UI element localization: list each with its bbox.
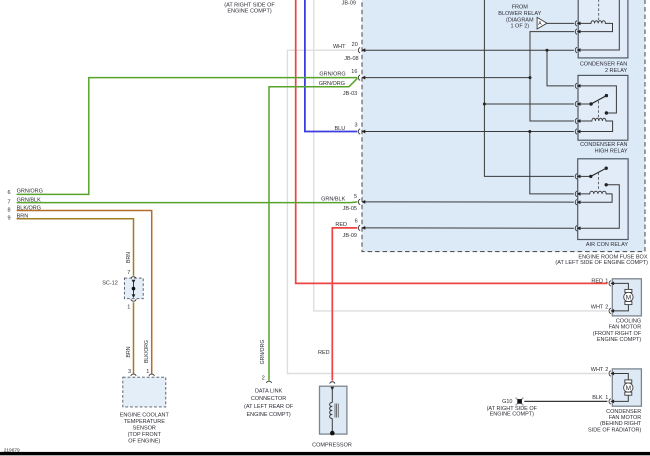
cooling fan motor box [612, 279, 641, 316]
svg-text:SENSOR: SENSOR [133, 425, 156, 431]
svg-text:CONDENSER: CONDENSER [606, 409, 641, 415]
svg-text:ENGINE COMPT): ENGINE COMPT) [246, 412, 290, 418]
junction node on BLU-3 wire [528, 130, 531, 133]
compressor connector arrow [330, 387, 334, 391]
svg-text:GRN/ORG: GRN/ORG [17, 189, 43, 195]
wire WHT from fuse box pin 20 to condenser fan motor [287, 50, 607, 373]
junction node on vertical wire [483, 103, 486, 106]
splice SC-12 internal wire [133, 283, 135, 296]
cooling fan motor internal wiring [614, 283, 629, 289]
svg-text:FAN MOTOR: FAN MOTOR [609, 415, 642, 421]
svg-text:FAN MOTOR: FAN MOTOR [609, 325, 642, 331]
fuse box internal branch down to K3 pin 2 [530, 132, 574, 194]
svg-text:GRN/BLK: GRN/BLK [17, 197, 41, 203]
svg-text:OF ENGINE): OF ENGINE) [128, 438, 160, 444]
svg-text:HIGH RELAY: HIGH RELAY [595, 148, 628, 154]
svg-text:7: 7 [7, 199, 10, 205]
svg-text:JB-08: JB-08 [344, 56, 358, 62]
relay K2 pin 1 connector [575, 83, 577, 88]
fuse box internal branch to K2 pin 2 [484, 103, 574, 105]
relay K3 lower contact wire to pin 4 [580, 185, 619, 229]
wire RED from top edge to cooling fan motor pin 1 [296, 0, 608, 283]
svg-text:GRN/ORG: GRN/ORG [319, 71, 345, 77]
svg-text:FROM: FROM [512, 5, 529, 11]
relay K1 pin B connector [575, 29, 577, 34]
compressor internal wire lower [331, 419, 333, 434]
fuse box edge connector pin 6 [358, 225, 360, 230]
cooling fan motor M symbol [625, 289, 632, 292]
relay K1 armature dashed link [598, 0, 600, 21]
svg-text:(AT RIGHT SIDE OF: (AT RIGHT SIDE OF [224, 2, 275, 8]
svg-text:3: 3 [355, 123, 358, 129]
fuse box internal wire WHT-20 to K1 pin C [365, 49, 574, 51]
svg-text:ENGINE COMPT): ENGINE COMPT) [490, 411, 534, 417]
relay K1 pin A connector [575, 21, 577, 26]
fuse box edge connector pin 16 [358, 75, 360, 80]
svg-text:BLOWER RELAY: BLOWER RELAY [498, 11, 541, 17]
svg-text:BRN: BRN [126, 252, 132, 263]
fuse box internal branch to K2 pin 1 [547, 50, 574, 86]
bottom border bar [0, 452, 650, 455]
svg-text:CONDENSER FAN: CONDENSER FAN [580, 61, 627, 67]
svg-text:(AT LEFT REAR OF: (AT LEFT REAR OF [244, 404, 294, 410]
svg-text:1: 1 [127, 304, 130, 310]
relay K2 lower contact [605, 111, 608, 114]
compressor connector arc [330, 382, 335, 384]
sensor pin 1 connector arc [149, 374, 154, 376]
svg-text:GRN/ORG: GRN/ORG [319, 81, 345, 87]
svg-text:CONDENSER FAN: CONDENSER FAN [580, 142, 627, 148]
splice SC-12 junction node [132, 287, 136, 291]
relay K1 condenser fan 2 relay box [578, 0, 628, 58]
svg-text:9: 9 [7, 215, 10, 221]
fuse box edge connector pin 5 [358, 199, 360, 204]
sensor pin 3 connector arc [131, 374, 136, 376]
relay K3 pin 4 connector [575, 226, 577, 231]
svg-text:ENGINE COOLANT: ENGINE COOLANT [120, 412, 170, 418]
svg-text:2: 2 [262, 375, 265, 381]
svg-text:6: 6 [7, 190, 10, 196]
svg-text:GRN/BLK: GRN/BLK [321, 197, 345, 203]
fuse box internal wire RED-6 to K3 pin 4 [365, 227, 574, 229]
fuse box internal wire BLU-3 to K2 pin 4 [365, 131, 574, 133]
svg-text:CONNECTOR: CONNECTOR [251, 396, 286, 402]
splice SC-12 box [124, 278, 143, 299]
fuse box internal vertical wire from top to K3 pin 1 [484, 0, 574, 176]
svg-text:JB-05: JB-05 [343, 206, 357, 212]
relay K3 pin 2 connector [575, 191, 577, 196]
splice SC-12 bottom connector [132, 294, 136, 298]
svg-text:SIDE OF RADIATOR): SIDE OF RADIATOR) [588, 427, 641, 433]
fuse box edge connector pin 3 [358, 129, 360, 134]
svg-text:WHT: WHT [591, 304, 604, 310]
svg-text:RED: RED [318, 350, 330, 356]
svg-text:BLK/ORG: BLK/ORG [17, 205, 41, 211]
relay K3 pin 1 wire (switch common) [580, 175, 590, 177]
relay K2 switch blade [591, 96, 606, 104]
fuse box internal branch down to K2 pin 3 [530, 78, 574, 121]
svg-text:COOLING: COOLING [616, 319, 641, 325]
relay K2 pin 1 wire to lower contact [580, 86, 616, 113]
cooling fan motor pin 2 connector [609, 308, 611, 313]
svg-text:DATA LINK: DATA LINK [255, 388, 283, 394]
svg-text:JB-09: JB-09 [342, 1, 356, 7]
relay K2 pin 2 connector [575, 101, 577, 106]
relay K2 coil [580, 118, 612, 131]
svg-text:1: 1 [146, 369, 149, 375]
svg-text:(FRONT RIGHT OF: (FRONT RIGHT OF [593, 331, 642, 337]
compressor case ground node [330, 431, 335, 436]
svg-text:8: 8 [7, 207, 10, 213]
relay K3 upper contact [605, 167, 608, 170]
condenser fan motor pin 2 connector [609, 371, 611, 376]
svg-text:G10: G10 [502, 399, 512, 405]
svg-text:2 RELAY: 2 RELAY [605, 68, 628, 74]
svg-text:6: 6 [355, 218, 358, 224]
svg-text:(BEHIND RIGHT: (BEHIND RIGHT [600, 421, 642, 427]
svg-text:(DIAGRAM: (DIAGRAM [506, 17, 534, 23]
junction node on GRN/ORG-16 wire [529, 76, 532, 79]
relay K1 coil [579, 21, 613, 32]
svg-text:ENGINE COMPT): ENGINE COMPT) [597, 337, 641, 343]
engine room fuse box [362, 0, 645, 252]
svg-text:(AT LEFT SIDE OF ENGINE COMPT): (AT LEFT SIDE OF ENGINE COMPT) [555, 260, 648, 266]
compressor internal wire [331, 387, 333, 403]
svg-text:7: 7 [127, 270, 130, 276]
wire GRN/BLK from connector pin 7 to fuse box pin 5 [17, 201, 358, 204]
svg-text:RED: RED [591, 279, 603, 285]
svg-text:BLK/ORG: BLK/ORG [144, 340, 150, 363]
svg-text:AIR CON RELAY: AIR CON RELAY [586, 242, 628, 248]
svg-text:JB-09: JB-09 [343, 233, 357, 239]
compressor coil core lines [334, 404, 336, 418]
svg-text:BRN: BRN [17, 214, 29, 220]
svg-text:1: 1 [605, 395, 608, 401]
from blower relay arrow symbol A [537, 17, 547, 29]
cooling fan motor pin 1 connector [609, 281, 611, 286]
compressor clutch coil [330, 403, 333, 419]
relay K2 armature dashed link [597, 101, 599, 119]
junction node on WHT-20 wire [546, 49, 549, 52]
relay K2 pin 3 connector [575, 118, 577, 123]
svg-text:16: 16 [351, 69, 357, 75]
fuse box internal wire GRN/ORG-16 [365, 77, 530, 79]
svg-text:1 OF 2): 1 OF 2) [510, 24, 529, 30]
svg-text:BRN: BRN [126, 346, 132, 357]
wire BRN from connector pin 9 to splice SC-12 [17, 219, 134, 276]
svg-text:M: M [626, 294, 631, 301]
svg-text:2: 2 [605, 367, 608, 373]
relay K1 pin C wire to cut-off switch [580, 0, 619, 50]
relay K3 coil [580, 191, 612, 202]
wire GRN/ORG from connector pin 6 up to fuse box pin 16 [17, 78, 358, 195]
splice SC-12 top connector [131, 277, 136, 279]
svg-text:M: M [626, 385, 631, 392]
wire BLK/ORG from connector pin 8 to sensor [17, 211, 152, 374]
relay K3 switch blade [591, 168, 606, 176]
svg-text:BLK: BLK [592, 395, 603, 401]
relay K3 air con relay box [578, 159, 628, 240]
svg-text:1: 1 [605, 279, 608, 285]
ground G10 [516, 398, 524, 406]
relay K2 pin 4 connector [575, 129, 577, 134]
svg-text:3: 3 [128, 369, 131, 375]
svg-text:TEMPERATURE: TEMPERATURE [124, 419, 165, 425]
relay K2 condenser fan high relay box [578, 75, 628, 140]
wire BLK from ground G10 to condenser fan motor pin 1 [524, 400, 607, 402]
wire from blower relay to K1 pin A [547, 22, 574, 24]
svg-text:20: 20 [352, 42, 358, 48]
svg-text:COMPRESSOR: COMPRESSOR [312, 442, 352, 448]
data link connector arc [266, 381, 271, 383]
relay K1 pin C connector [575, 47, 577, 52]
wire GRN/ORG from data link connector to fuse box pin 16 [269, 78, 357, 380]
engine coolant temperature sensor box [123, 377, 166, 407]
svg-text:WHT: WHT [333, 44, 346, 50]
fuse box edge connector pin 20 [358, 48, 360, 53]
fuse box internal branch up to K1 pin B [530, 32, 574, 78]
relay K3 pin 1 connector [575, 174, 577, 179]
svg-text:(TOP FRONT: (TOP FRONT [128, 432, 162, 438]
wire BRN from splice SC-12 to sensor [133, 302, 135, 374]
svg-text:2: 2 [605, 304, 608, 310]
wire WHT from top edge to cooling fan motor [314, 0, 608, 311]
svg-text:JB-03: JB-03 [343, 91, 357, 97]
condenser fan motor pin 1 connector [609, 399, 611, 404]
relay K2 pin 2 wire (switch common) [580, 103, 591, 105]
svg-text:SC-12: SC-12 [102, 281, 118, 287]
wire RED from fuse box pin 6 to compressor [332, 228, 357, 381]
compressor box [320, 386, 347, 434]
svg-text:GRN/ORG: GRN/ORG [260, 340, 266, 365]
svg-text:WHT: WHT [591, 367, 604, 373]
wire BLU from top edge to fuse box pin 3 [305, 0, 358, 132]
relay K2 upper contact [605, 94, 608, 97]
relay K3 pin 3 connector [575, 200, 577, 205]
svg-text:5: 5 [354, 194, 357, 200]
condenser fan motor internal wiring [614, 374, 629, 380]
condenser fan motor box [612, 369, 641, 406]
fuse box internal wire GRN/BLK-5 to K3 pin 3 [365, 201, 574, 203]
relay K3 armature dashed link [598, 173, 600, 191]
svg-text:ENGINE COMPT): ENGINE COMPT) [227, 9, 271, 15]
condenser fan motor M symbol [625, 380, 632, 383]
